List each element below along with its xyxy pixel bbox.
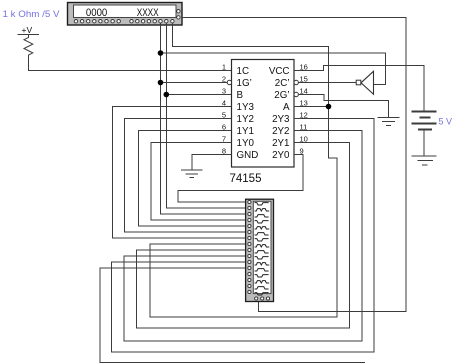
display DISP1 body — [68, 3, 183, 26]
svg-text:2Y3: 2Y3 — [272, 114, 290, 125]
resistor pack RP1 bottom terminal pins — [255, 297, 270, 300]
U1 pin 2 inversion bubble — [227, 80, 231, 84]
U1 pin numbers 1-8 — [222, 63, 226, 156]
wire display pin to U1 pin 2 and RP1 pin 3 (vertical net) — [161, 23, 249, 214]
display DISP1 terminal pins — [74, 10, 180, 23]
resistor R1 1k — [24, 35, 33, 58]
svg-text:1: 1 — [222, 63, 226, 72]
svg-text:2Y0: 2Y0 — [272, 150, 290, 161]
svg-text:XXXX: XXXX — [137, 7, 159, 19]
wire U1 pin 6 (1Y1) to RP1 pin 5 — [139, 131, 249, 227]
svg-text:VCC: VCC — [269, 66, 290, 77]
inverter U3 (NOT gate, pointing left) — [356, 71, 373, 94]
junction node net A at U1 pin 13 — [326, 104, 332, 110]
wire U1 pin 12 (2Y3) to RP1 pin 11 — [111, 119, 373, 352]
wire U1 pin 13 (A) to net A junction — [294, 106, 329, 108]
U1 left pin labels — [237, 66, 259, 161]
svg-text:B: B — [237, 90, 244, 101]
wire display pin to U1 pin 3 and RP1 pin 2 — [166, 23, 248, 208]
resistor pack RP1 left terminal pins — [248, 200, 251, 293]
U1 pin 14 inversion bubble — [294, 92, 298, 96]
junction node on display net at U1 pin 3 — [164, 92, 170, 98]
svg-text:2G’: 2G’ — [274, 90, 289, 101]
wire U1 pin 14 (2G bar) to ground — [298, 95, 388, 118]
svg-text:74155: 74155 — [230, 173, 262, 185]
svg-text:1C: 1C — [237, 66, 250, 77]
resistor pack RP1 body — [246, 199, 274, 301]
svg-text:1Y1: 1Y1 — [237, 126, 254, 137]
svg-text:0000: 0000 — [86, 7, 107, 19]
wire U1 pin 10 (2Y1) to RP1 pin 9 — [137, 143, 350, 329]
svg-text:2Y1: 2Y1 — [272, 138, 289, 149]
svg-text:1Y0: 1Y0 — [237, 138, 255, 149]
resistor pack RP1 resistor elements — [255, 203, 270, 295]
junction node on display net at U1 pin 2 — [158, 80, 164, 86]
wire battery negative to ground — [423, 130, 425, 157]
svg-text:+V: +V — [22, 25, 33, 35]
U1 pin 15 inversion bubble — [294, 80, 298, 84]
svg-text:1 k Ohm /5 V: 1 k Ohm /5 V — [3, 9, 61, 19]
battery V1 5V — [412, 112, 437, 130]
wire U1 pin 8 GND to ground — [192, 155, 232, 170]
wire display pin to net A / U1 pin 13 / RP1 pin 8 — [150, 23, 337, 317]
wire branch to U1 pin 2 (1G bar) — [161, 82, 228, 84]
svg-text:GND: GND — [237, 150, 259, 161]
svg-text:5 V: 5 V — [439, 117, 453, 127]
display DISP1 digits — [86, 7, 159, 19]
ground symbol at battery — [412, 156, 437, 165]
svg-text:2C’: 2C’ — [275, 78, 290, 89]
wire outer loop to RP1 pin 12 — [100, 268, 365, 362]
wire U1 pin 5 (1Y2) to RP1 pin 6 — [125, 119, 249, 233]
svg-text:2Y2: 2Y2 — [272, 126, 289, 137]
svg-text:A: A — [283, 102, 290, 113]
wire R1 to U1 pin 1 (net 1C) — [29, 57, 232, 71]
U1 pin numbers 16-9 — [300, 63, 308, 156]
op IC U1 74155 body — [232, 60, 295, 168]
wire U1 pin 7 (1Y0) to RP1 pin 4 — [151, 143, 248, 221]
svg-text:1Y3: 1Y3 — [237, 102, 255, 113]
wire U1 pin 9 (2Y0) to RP1 pin 1 — [178, 155, 303, 203]
svg-text:1G’: 1G’ — [237, 78, 252, 89]
power +V supply symbol — [18, 25, 40, 35]
ground symbol at U1 pin 14 net — [378, 118, 400, 126]
wire display right pin to RP1 common (outer loop) — [182, 17, 406, 311]
wire U1 pin 4 (1Y3) to RP1 pin 7 — [113, 107, 249, 239]
wire branch to inverter U3 input — [161, 53, 386, 84]
junction node on display net at inverter branch — [158, 50, 164, 56]
svg-text:1Y2: 1Y2 — [237, 114, 254, 125]
svg-text:3: 3 — [222, 87, 226, 96]
svg-text:2: 2 — [222, 75, 226, 84]
wire U1 pin 16 VCC to battery positive — [294, 66, 424, 112]
ground symbol at U1 pin 8 — [181, 170, 203, 178]
wire U1 pin 15 to inverter U3 output — [298, 82, 356, 84]
wire U1 pin 11 (2Y2) to RP1 pin 10 — [124, 131, 362, 341]
U1 right pin labels — [269, 66, 290, 161]
wire branch to U1 pin 3 (B) — [166, 94, 231, 96]
